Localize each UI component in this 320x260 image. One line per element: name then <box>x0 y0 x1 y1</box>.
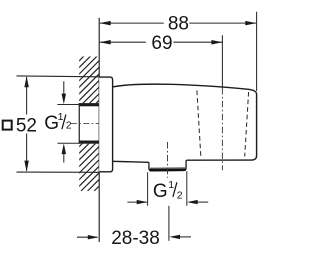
svg-text:28-38: 28-38 <box>111 228 160 249</box>
dimension 88: right arrowhead <box>245 21 256 26</box>
inlet centerline (dash-dot) <box>71 122 107 124</box>
svg-text:2: 2 <box>66 120 72 132</box>
dimension 52: dimension line <box>26 77 28 115</box>
outlet dimension G1/2: left extension line <box>147 172 149 206</box>
svg-text:52: 52 <box>16 115 37 136</box>
dimension 28-38: left arrow (pointing right at wall face) <box>77 236 97 238</box>
dimension 69: left arrowhead <box>100 40 111 45</box>
inlet thread OD dimension: lower arrow <box>62 143 67 154</box>
dimension 69: dimension line <box>100 41 146 43</box>
flange top edge + 52 top extension line <box>17 75 100 78</box>
outlet boss heavy bottom edge <box>150 169 186 172</box>
dimension 52: top arrowhead <box>24 76 29 87</box>
inlet nipple G1/2 thread: lower thread band <box>79 141 99 144</box>
inlet thread OD dimension: upper tick line <box>57 104 79 106</box>
inlet thread OD dimension: upper arrow <box>63 81 65 95</box>
dimension 69: right arrowhead <box>211 40 222 45</box>
svg-text:2: 2 <box>177 189 183 201</box>
wall face line (also extension line for 88 and 28-38 dims) <box>98 18 100 242</box>
flange bottom edge + 52 bottom extension line <box>17 171 100 173</box>
hidden holder cone, left dashed line <box>197 91 201 158</box>
dimension 69: right extension line (solid part above body) <box>221 35 223 88</box>
svg-text:1: 1 <box>58 111 64 123</box>
svg-text:69: 69 <box>151 33 172 54</box>
outlet boss inner bottom line <box>150 167 186 169</box>
outlet boss (G1/2 outlet) <box>149 160 186 171</box>
hidden holder cone, right dashed line <box>245 92 249 157</box>
holder axis centerline (dash-dot) through body <box>221 88 223 170</box>
body bottom edge, left of outlet boss <box>113 161 149 162</box>
outlet axis centerline (dash-dot) <box>167 142 169 178</box>
square wall flange (escutcheon) <box>99 77 112 172</box>
svg-text:1: 1 <box>168 179 174 191</box>
dimension 52: bottom arrowhead <box>24 161 29 172</box>
outlet dimension: right arrow (pointing left) <box>187 200 198 204</box>
svg-text:G: G <box>153 181 168 202</box>
inlet nipple left edge <box>78 103 80 144</box>
outlet dimension: left arrow (pointing right) <box>127 201 146 203</box>
inlet nipple G1/2 thread: upper thread band <box>79 103 99 106</box>
dimension 28-38: right arrow (pointing left at outlet axis) <box>169 235 180 239</box>
dimension 88: left arrowhead <box>100 21 111 26</box>
dimension 28-38: right extension line (outlet axis) <box>168 206 170 241</box>
square symbol for 52 <box>3 121 12 130</box>
body outline (union housing, top / right cap / bottom right) <box>113 84 257 160</box>
inlet thread OD dimension: lower tick line <box>57 142 79 144</box>
outlet dimension G1/2: right extension line <box>186 171 188 206</box>
dimension 88: right extension line <box>256 12 258 91</box>
svg-text:88: 88 <box>168 14 189 35</box>
wall hatching (section of wall) <box>0 41 244 191</box>
dimension 88: dimension line <box>100 22 164 24</box>
